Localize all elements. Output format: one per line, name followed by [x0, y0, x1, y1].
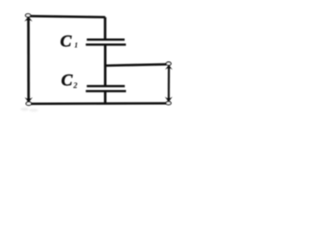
- wire: bottom horizontal (bottom-left terminal to bottom-right terminal): [28, 102, 168, 105]
- arrowhead: down, above bottom-right terminal: [165, 97, 173, 102]
- arrow shaft: right terminal-pair indicator: [168, 65, 170, 101]
- scan smudge artifact below bottom-left terminal: [21, 108, 38, 112]
- terminal circle: top-right: [166, 62, 171, 65]
- svg-text:C: C: [60, 31, 72, 50]
- terminal circle: top-left: [26, 14, 31, 17]
- arrowhead: up, below top-right terminal: [165, 65, 173, 70]
- capacitor C1: top plate: [87, 39, 125, 41]
- capacitor C2: bottom plate: [86, 90, 126, 92]
- terminal circle: bottom-right: [166, 102, 171, 105]
- capacitor C1: bottom plate: [86, 44, 126, 46]
- wire: C1 top lead (vertical): [104, 17, 107, 39]
- svg-text:1: 1: [74, 40, 78, 49]
- label C2: [61, 70, 77, 90]
- wire: middle horizontal (junction node to top-right terminal): [105, 64, 166, 65]
- wire: top horizontal (top-left terminal to C1 top lead): [28, 16, 105, 17]
- arrow shaft: left terminal-pair indicator: [27, 16, 30, 102]
- svg-text:C: C: [61, 70, 73, 89]
- capacitor C2: top plate: [87, 85, 125, 87]
- wire: C2 bottom lead (vertical): [104, 91, 107, 104]
- terminal circle: bottom-left: [26, 102, 31, 105]
- wire: C1-C2 junction lead (vertical): [104, 45, 107, 86]
- arrowhead: up, below top-left terminal: [24, 17, 32, 22]
- arrowhead: down, above bottom-left terminal: [25, 97, 33, 102]
- label C1: [60, 31, 78, 50]
- svg-text:2: 2: [72, 81, 77, 90]
